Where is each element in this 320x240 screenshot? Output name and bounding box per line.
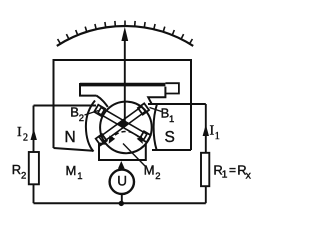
voltage source U circle (110, 170, 134, 194)
svg-text:S: S (165, 129, 175, 146)
bottom core block (99, 144, 146, 160)
resistor R2 (29, 152, 39, 184)
svg-text:1: 1 (169, 114, 174, 125)
svg-text:1: 1 (215, 131, 220, 142)
svg-text:N: N (65, 129, 76, 146)
junction node (119, 201, 124, 206)
svg-text:2: 2 (155, 171, 160, 182)
right wire horizontal / S box top (148, 103, 206, 105)
top pole piece left end (80, 83, 108, 107)
current arrow I1 (203, 125, 209, 137)
deflection dashed arc (110, 131, 141, 140)
arrow from source into block (118, 161, 125, 169)
left wire vertical lower (33, 184, 35, 203)
svg-text:I: I (17, 125, 22, 140)
coil crossing darkening (117, 120, 128, 129)
svg-text:1: 1 (77, 171, 82, 182)
deflection arrowhead left (109, 136, 116, 144)
left wire horizontal / N box top (34, 105, 97, 107)
coil B1 (upper-right to lower-left) (96, 103, 149, 145)
bottom wire (34, 202, 206, 204)
coil B1 end pads (96, 134, 107, 145)
leader line B2 (85, 111, 99, 116)
label I1 (210, 124, 220, 143)
coil B2 (upper-left to lower-right) (94, 105, 151, 142)
svg-text:x: x (246, 170, 252, 182)
top pole piece bar (80, 83, 165, 87)
svg-text:1: 1 (222, 168, 228, 180)
scale arc of meter (57, 26, 193, 46)
svg-text:B: B (161, 106, 170, 121)
current arrow I2 (31, 129, 37, 141)
label R1 = Rx (213, 162, 251, 181)
svg-text:2: 2 (79, 113, 84, 124)
left wire vertical upper (33, 106, 35, 153)
needle arrowhead (121, 27, 128, 41)
label I2 (17, 125, 28, 144)
N pole shoe box (54, 101, 96, 152)
magnet yoke outer rectangle (54, 60, 192, 150)
wire source to bottom (121, 194, 123, 203)
svg-text:2: 2 (23, 133, 28, 144)
right wire vertical lower (205, 186, 207, 203)
label M2 (144, 163, 161, 183)
scale tick marks (58, 21, 193, 44)
label B1 (161, 106, 175, 126)
svg-text:2: 2 (21, 171, 26, 182)
svg-text:R: R (12, 162, 21, 177)
pointer needle (124, 38, 126, 125)
label B2 (70, 105, 84, 125)
svg-text:M: M (66, 163, 77, 178)
svg-text:U: U (117, 173, 127, 188)
svg-text:B: B (70, 105, 79, 120)
coil B2 end pads (94, 105, 105, 116)
leader line B1 (150, 108, 162, 112)
top pole piece right end (165, 83, 179, 93)
leader line to M2 (123, 144, 146, 167)
S pole shoe box (152, 104, 191, 150)
svg-text:M: M (144, 163, 155, 178)
moving-coil drum circle (100, 102, 152, 154)
right wire vertical upper (205, 104, 207, 153)
label M1 (66, 163, 83, 182)
resistor R1 (201, 153, 209, 186)
svg-text:I: I (210, 124, 215, 139)
label R2 (12, 162, 26, 182)
deflection arrowhead right (137, 136, 143, 144)
svg-text:=: = (229, 163, 236, 177)
